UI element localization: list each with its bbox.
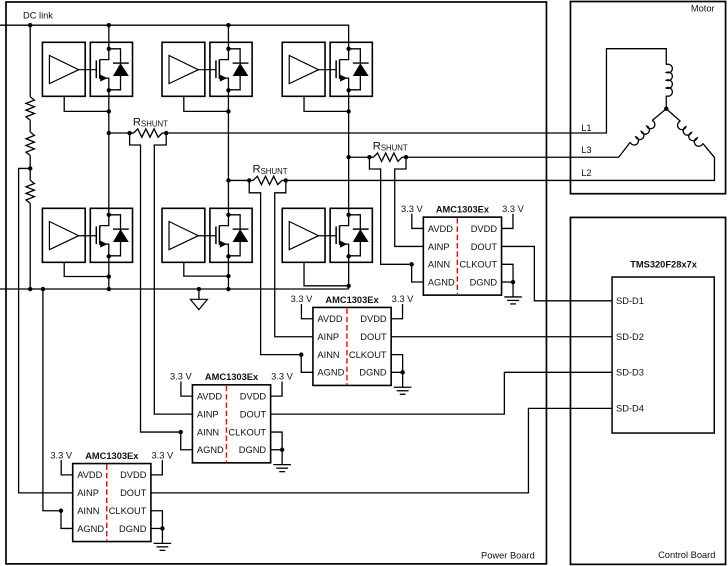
svg-text:AGND: AGND [197,445,224,455]
svg-text:CLKOUT: CLKOUT [109,506,147,516]
svg-text:AMC1303Ex: AMC1303Ex [325,295,379,305]
svg-text:DGND: DGND [239,445,267,455]
svg-text:AVDD: AVDD [77,470,102,480]
svg-text:DVDD: DVDD [120,470,147,480]
svg-text:AINP: AINP [428,242,450,252]
svg-text:DVDD: DVDD [240,392,267,402]
svg-text:DOUT: DOUT [120,488,147,498]
svg-text:AVDD: AVDD [197,392,222,402]
svg-text:Control Board: Control Board [658,550,715,560]
svg-text:CLKOUT: CLKOUT [459,260,497,270]
svg-text:AVDD: AVDD [428,224,453,234]
svg-text:DOUT: DOUT [471,242,498,252]
svg-text:DOUT: DOUT [360,332,387,342]
svg-text:AMC1303Ex: AMC1303Ex [85,451,139,461]
svg-text:3.3 V: 3.3 V [50,450,73,460]
svg-text:SD-D3: SD-D3 [616,368,644,378]
svg-text:AGND: AGND [428,277,455,287]
svg-text:3.3 V: 3.3 V [151,450,174,460]
svg-text:Motor: Motor [691,4,715,14]
svg-text:Power Board: Power Board [481,551,535,561]
svg-text:CLKOUT: CLKOUT [349,350,387,360]
svg-text:AINP: AINP [77,488,99,498]
svg-text:DOUT: DOUT [240,410,267,420]
svg-text:3.3 V: 3.3 V [502,204,525,214]
svg-text:SD-D2: SD-D2 [616,332,644,342]
svg-text:DC link: DC link [23,11,53,21]
svg-text:AINN: AINN [197,427,219,437]
svg-text:DGND: DGND [359,368,387,378]
svg-text:AINP: AINP [317,332,339,342]
svg-text:3.3 V: 3.3 V [291,294,314,304]
svg-text:AINN: AINN [317,350,339,360]
svg-text:AINN: AINN [428,260,450,270]
svg-text:DVDD: DVDD [471,224,498,234]
svg-text:SD-D1: SD-D1 [616,296,644,306]
svg-text:3.3 V: 3.3 V [401,204,424,214]
svg-text:AGND: AGND [317,368,344,378]
svg-text:3.3 V: 3.3 V [271,372,294,382]
svg-text:L3: L3 [581,145,591,155]
svg-text:3.3 V: 3.3 V [170,372,193,382]
svg-text:AGND: AGND [77,524,104,534]
svg-text:AMC1303Ex: AMC1303Ex [205,372,259,382]
svg-text:AINN: AINN [77,506,99,516]
svg-text:AVDD: AVDD [317,314,342,324]
svg-text:SD-D4: SD-D4 [616,404,644,414]
svg-text:DVDD: DVDD [360,314,387,324]
svg-text:DGND: DGND [119,524,147,534]
svg-text:L1: L1 [581,123,591,133]
svg-text:AMC1303Ex: AMC1303Ex [436,205,490,215]
svg-text:TMS320F28x7x: TMS320F28x7x [630,259,697,269]
svg-text:DGND: DGND [470,277,498,287]
svg-text:L2: L2 [581,168,591,178]
svg-text:CLKOUT: CLKOUT [228,427,266,437]
svg-text:AINP: AINP [197,410,219,420]
svg-text:3.3 V: 3.3 V [392,294,415,304]
